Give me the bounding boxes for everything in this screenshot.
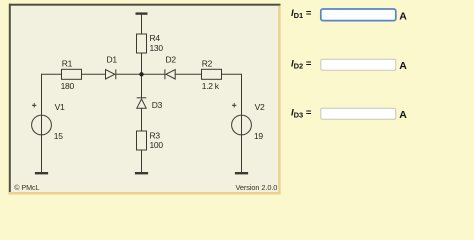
input field I_D3 (321, 108, 396, 119)
wire D3 anode to R3 (141, 108, 143, 131)
wire R4 to node A (141, 53, 143, 74)
svg-text:R4: R4 (150, 33, 161, 43)
svg-text:R2: R2 (202, 58, 213, 68)
ground right (235, 172, 248, 174)
voltage source V1 (32, 115, 52, 135)
diode D3 (137, 97, 147, 99)
svg-text:D2: D2 (166, 54, 177, 64)
ground left (35, 172, 48, 174)
input field I_D1 (focused) (321, 9, 396, 21)
input field I_D2 (321, 59, 396, 70)
svg-text:100: 100 (150, 140, 164, 150)
panel border dark top (9, 4, 281, 6)
svg-text:A: A (399, 10, 407, 22)
node A junction dot (139, 72, 143, 76)
wire supply to R4 (141, 14, 143, 34)
svg-text:130: 130 (150, 43, 164, 53)
svg-text:15: 15 (54, 131, 63, 141)
svg-text:1.2 k: 1.2 k (202, 81, 220, 91)
svg-text:D3: D3 (152, 100, 163, 110)
polarity plus V2 (232, 103, 236, 107)
svg-text:D1: D1 (107, 54, 118, 64)
wire V1 top corner to R1 (42, 74, 62, 80)
panel border dark left (9, 4, 11, 195)
schematic panel background (9, 4, 281, 195)
wire D1 cathode to node A (116, 73, 142, 75)
svg-text:19: 19 (254, 131, 263, 141)
svg-text:R1: R1 (62, 58, 73, 68)
polarity plus V1 (32, 103, 36, 107)
ground centre (135, 172, 148, 174)
wire R1 to D1 anode (82, 73, 106, 75)
resistor R1 (62, 69, 82, 79)
panel border gold bottom (9, 192, 281, 195)
resistor R2 (202, 69, 222, 79)
svg-text:Version 2.0.0: Version 2.0.0 (235, 183, 277, 192)
svg-text:A: A (399, 60, 407, 72)
wire through V1 to ground (41, 74, 43, 172)
wire through V2 to ground (241, 74, 243, 172)
resistor R3 (137, 131, 147, 150)
resistor R4 (137, 34, 147, 53)
wire node A to D3 cathode (141, 74, 143, 98)
svg-text:V2: V2 (255, 102, 265, 112)
svg-text:V1: V1 (55, 102, 65, 112)
svg-text:© PMcL: © PMcL (14, 183, 39, 192)
diode D2 (164, 69, 166, 79)
svg-text:180: 180 (61, 81, 75, 91)
wire R2 to V2 branch corner (222, 74, 242, 115)
panel border gold right (278, 6, 281, 195)
voltage source V2 (232, 115, 252, 135)
diode D1 (106, 70, 115, 79)
svg-text:A: A (399, 109, 407, 121)
supply rail terminal (136, 12, 148, 14)
wire D2 anode to R2 (175, 73, 201, 75)
wire R3 to ground (141, 150, 143, 173)
wire node A to D2 cathode (142, 73, 165, 75)
